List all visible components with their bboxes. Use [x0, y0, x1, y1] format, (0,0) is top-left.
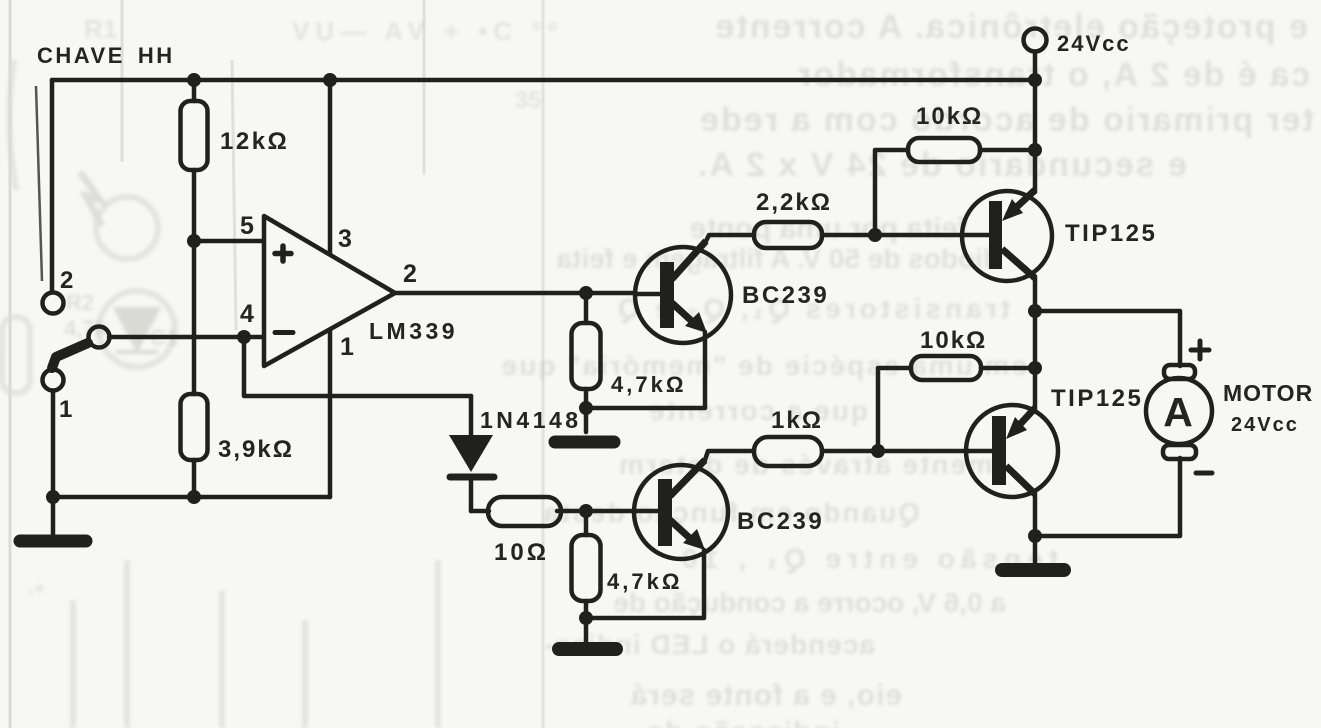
- − input mark: [275, 330, 293, 335]
- switch blade (thrown toward terminal 1): [52, 343, 88, 368]
- junction: 10k lower right on +V line: [1028, 361, 1042, 375]
- wire: motor − branch: [1035, 458, 1180, 536]
- wire: LM339 output to Q1 base: [394, 291, 636, 296]
- resistor R 4,7k (upper): [572, 293, 601, 408]
- svg-text:BC239: BC239: [737, 508, 824, 535]
- svg-text:eio, e a fonte será: eio, e a fonte será: [630, 679, 902, 712]
- junction: 4,7k upper bottom node: [579, 401, 593, 415]
- svg-text:4: 4: [240, 300, 254, 328]
- wire: diode to 10R: [471, 509, 489, 514]
- svg-text:24Vcc: 24Vcc: [1057, 31, 1131, 56]
- wire: Q3 collector down to motor node: [1033, 277, 1038, 368]
- svg-text:A: A: [1163, 389, 1193, 435]
- motor − polarity: [1196, 471, 1212, 476]
- svg-text:3: 3: [338, 225, 352, 253]
- wire: pin 3 to rail: [328, 80, 333, 253]
- svg-text:3,9kΩ: 3,9kΩ: [218, 436, 294, 463]
- junction: Q1 base node: [579, 286, 593, 300]
- svg-text:VU— AV + •C °º: VU— AV + •C °º: [292, 16, 563, 46]
- svg-text:e secundario de 24 V x 2 A.: e secundario de 24 V x 2 A.: [696, 146, 1187, 184]
- ground (bottom left): [20, 497, 86, 541]
- svg-text:10kΩ: 10kΩ: [920, 327, 987, 354]
- ground (under upper 4,7k): [555, 408, 614, 442]
- wire: Q4 emitter up: [1033, 368, 1038, 410]
- svg-text:feita por uma ponte: feita por uma ponte: [690, 212, 968, 245]
- svg-text:TIP125: TIP125: [1051, 385, 1143, 412]
- junction: pin3 on rail: [323, 73, 337, 87]
- junction: 12k top on rail: [187, 73, 201, 87]
- transistor Q4 TIP125 (lower): [966, 405, 1058, 497]
- wire: motor + branch: [1035, 311, 1180, 366]
- ground (under lower 4,7k): [559, 618, 616, 649]
- motor + polarity: [1191, 341, 1209, 359]
- resistor R 3,9k: [181, 241, 208, 497]
- wire: Q1 emitter to ground node: [586, 332, 705, 408]
- junction: Q4 base node: [871, 444, 885, 458]
- svg-text:ca é de 2 A, o transformador: ca é de 2 A, o transformador: [796, 56, 1310, 94]
- svg-text:R1: R1: [84, 14, 117, 44]
- switch terminal 1: [43, 370, 64, 391]
- svg-text:5: 5: [240, 212, 254, 240]
- resistor R 1k: [754, 437, 968, 466]
- svg-text:10Ω: 10Ω: [494, 539, 549, 566]
- svg-text:TIP125: TIP125: [1065, 220, 1157, 247]
- svg-text:12kΩ: 12kΩ: [220, 128, 289, 155]
- wire: pin 1 to ground bus: [328, 330, 333, 497]
- svg-text:2: 2: [403, 260, 417, 288]
- junction: Q2 base node: [579, 504, 593, 518]
- svg-text:24Vcc: 24Vcc: [1231, 414, 1299, 436]
- junction: divider tap to pin5: [187, 234, 201, 248]
- junction: terminal1 / ground bus: [46, 490, 60, 504]
- wire: 10k (lower) left leg: [878, 368, 911, 451]
- junction: 4,7k lower bottom node: [579, 611, 593, 625]
- wire: Q2 collector to 1k: [705, 451, 754, 460]
- junction: Q3 base node: [868, 228, 882, 242]
- resistor R 12k: [181, 80, 208, 241]
- switch pole contact: [89, 327, 110, 348]
- junction: 3.9k bottom on ground bus: [187, 490, 201, 504]
- wire: Q1 collector to 2,2k: [706, 235, 754, 241]
- wire: bottom ground bus: [53, 495, 330, 500]
- wire: 10k (upper) left leg: [875, 150, 908, 235]
- + input mark: [275, 246, 291, 261]
- resistor R 10k (lower): [911, 356, 1035, 380]
- svg-text:CHAVE HH: CHAVE HH: [37, 43, 175, 68]
- svg-text:indicação de: indicação de: [646, 716, 840, 728]
- junction: pin4 line to feedback: [237, 330, 251, 344]
- svg-text:ter primario de acordo com a r: ter primario de acordo com a rede: [698, 101, 1314, 139]
- svg-text:2,2kΩ: 2,2kΩ: [756, 189, 832, 216]
- junction: 10k upper right on +V line: [1028, 143, 1042, 157]
- svg-text:1kΩ: 1kΩ: [771, 407, 823, 434]
- wire: +V line rail to Q3 emitter: [1033, 80, 1038, 192]
- svg-text:4,7kΩ: 4,7kΩ: [607, 569, 682, 594]
- svg-text:BC239: BC239: [742, 282, 829, 309]
- wire: tap to LM339 pin 5: [194, 239, 264, 244]
- svg-text:MOTOR: MOTOR: [1223, 380, 1313, 406]
- junction: +V on rail: [1028, 73, 1042, 87]
- wire: terminal 1 to ground bus: [51, 391, 56, 497]
- switch CHAVE HH terminal 2: [43, 293, 64, 314]
- svg-text:e proteção eletrônica. A corre: e proteção eletrônica. A corrente: [714, 8, 1308, 46]
- junction: Q4 collector / motor −: [1028, 529, 1042, 543]
- terminal 24Vcc: [1024, 29, 1047, 81]
- resistor R 4,7k (lower): [572, 511, 601, 618]
- resistor R 2,2k: [754, 222, 964, 248]
- transistor Q3 TIP125 (upper): [962, 190, 1052, 281]
- resistor R 10k (upper): [908, 138, 1035, 162]
- svg-text:10kΩ: 10kΩ: [916, 103, 983, 130]
- svg-text:1N4148: 1N4148: [480, 407, 582, 433]
- op-amp U1 LM339 body: [264, 216, 395, 366]
- wire: switch pole to LM339 pin 4: [109, 335, 264, 340]
- svg-text:1: 1: [59, 396, 72, 423]
- svg-text:1: 1: [340, 333, 354, 361]
- transistor Q2 BC239: [634, 460, 728, 559]
- svg-text:35: 35: [515, 87, 542, 114]
- wire: +V top rail: [52, 78, 1035, 83]
- svg-text:·º: ·º: [28, 580, 43, 605]
- junction: Q3 collector / motor +: [1028, 304, 1042, 318]
- svg-text:4,7kΩ: 4,7kΩ: [611, 372, 686, 397]
- transistor Q1 BC239: [635, 241, 731, 343]
- ground (under Q4): [1002, 536, 1064, 570]
- wire: feedback down and right to diode: [244, 337, 471, 396]
- wire: Q2 emitter to ground node: [586, 550, 704, 618]
- svg-text:LM339: LM339: [369, 318, 458, 344]
- motor M1 24Vcc: [1146, 365, 1212, 459]
- svg-text:que a corrente: que a corrente: [647, 395, 868, 426]
- wire: rail down to switch terminal 2: [50, 80, 55, 292]
- diode D1 1N4148: [449, 396, 494, 511]
- wire: Q4 collector to bottom node: [1033, 493, 1038, 536]
- svg-text:2: 2: [60, 267, 73, 294]
- resistor R 10Ω: [488, 497, 636, 526]
